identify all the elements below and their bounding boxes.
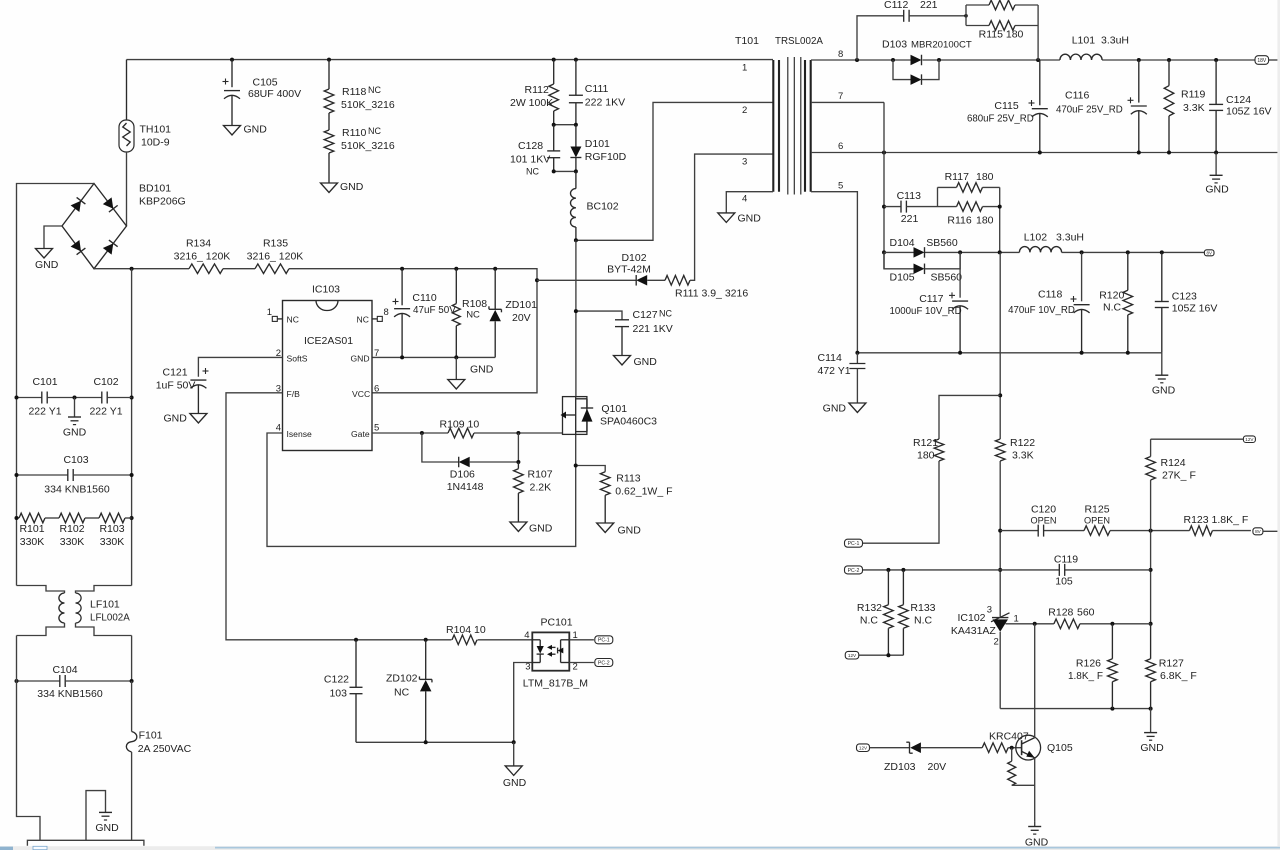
- wire: Isense loop (pin 4): [267, 433, 576, 546]
- pin 3 (T101): [742, 157, 747, 168]
- svg-text:C122: C122: [324, 674, 349, 686]
- ground (bridge negative): [35, 226, 62, 271]
- svg-text:10D-9: 10D-9: [141, 137, 170, 149]
- svg-text:3.3K: 3.3K: [1012, 450, 1034, 462]
- svg-text:NC: NC: [394, 687, 410, 699]
- pin 3 (IC102): [987, 605, 992, 616]
- svg-text:3: 3: [525, 662, 530, 673]
- svg-text:NC: NC: [287, 314, 299, 324]
- ground (T101 pin4): [718, 213, 761, 225]
- pin 2 (IC102): [994, 637, 999, 648]
- node 12V (R132 return): [845, 651, 903, 659]
- svg-text:R103: R103: [99, 523, 124, 535]
- resistor R102: [45, 513, 85, 548]
- wire: PC101 pin2 to PC-2: [569, 662, 594, 664]
- svg-text:2: 2: [994, 637, 999, 648]
- svg-text:2A 250VAC: 2A 250VAC: [138, 743, 192, 755]
- pin 1 (IC103): [267, 307, 283, 321]
- svg-text:ICE2AS01: ICE2AS01: [304, 335, 353, 347]
- svg-text:GND: GND: [1140, 742, 1164, 754]
- svg-text:C116: C116: [1065, 90, 1089, 102]
- svg-text:3216_ 120K: 3216_ 120K: [247, 251, 304, 263]
- node 18V output: [1255, 56, 1280, 65]
- ground (IC pin 7): [448, 357, 494, 389]
- svg-text:R132: R132: [857, 602, 882, 614]
- resistor R116 (bottom of pair): [938, 202, 1002, 253]
- pin 8 (IC103): [372, 307, 389, 321]
- wire: AC line 1 (left EMI leg): [17, 184, 95, 586]
- capacitor C103: [15, 454, 134, 496]
- fuse F101: [126, 681, 191, 840]
- svg-text:R112: R112: [525, 84, 549, 96]
- node 12V (R124 feed): [1151, 436, 1256, 443]
- svg-text:221 1KV: 221 1KV: [633, 323, 673, 335]
- line filter LF101: [17, 586, 132, 636]
- svg-text:GND: GND: [503, 777, 527, 789]
- resistor R109: [440, 419, 480, 438]
- svg-text:8: 8: [384, 307, 389, 318]
- svg-text:180: 180: [976, 215, 994, 227]
- svg-text:680uF 25V_RD: 680uF 25V_RD: [967, 114, 1034, 125]
- wire: 8V rectifier line: [884, 250, 1205, 254]
- svg-text:R120: R120: [1099, 290, 1124, 302]
- svg-text:D104: D104: [890, 237, 915, 249]
- zener diode ZD101: [489, 269, 537, 358]
- capacitor C105: [223, 60, 302, 126]
- ground (opto): [503, 742, 527, 789]
- svg-text:3: 3: [987, 605, 992, 616]
- svg-text:Q105: Q105: [1047, 742, 1073, 754]
- svg-text:LTM_817B_M: LTM_817B_M: [523, 678, 588, 690]
- svg-text:R117: R117: [945, 171, 969, 183]
- svg-text:4: 4: [524, 630, 529, 641]
- svg-text:OPEN: OPEN: [1084, 516, 1110, 526]
- wire: IC102 anode rail: [1000, 707, 1152, 711]
- svg-text:1N4148: 1N4148: [447, 481, 484, 493]
- svg-text:2: 2: [742, 105, 747, 116]
- wire: PC-2 / C119 line: [862, 568, 1150, 572]
- svg-text:D105: D105: [890, 272, 915, 284]
- svg-text:330K: 330K: [20, 536, 45, 548]
- svg-text:N.C: N.C: [1103, 302, 1122, 314]
- svg-text:222 Y1: 222 Y1: [89, 406, 122, 418]
- node PC-2 (tag): [845, 566, 863, 574]
- node 8V output: [1253, 528, 1280, 535]
- svg-text:D106: D106: [450, 469, 475, 481]
- wire: opto LED feed: [354, 638, 532, 642]
- svg-text:R135: R135: [263, 238, 288, 250]
- resistor R121: [862, 395, 1000, 543]
- capacitor C110: [393, 269, 457, 358]
- svg-text:IC103: IC103: [312, 284, 340, 296]
- wire: right EMI leg: [131, 269, 133, 681]
- resistor R132: [857, 570, 893, 655]
- svg-text:TH101: TH101: [140, 124, 172, 136]
- svg-text:3216_ 120K: 3216_ 120K: [174, 251, 231, 263]
- svg-text:C127: C127: [633, 309, 658, 321]
- svg-text:BC102: BC102: [587, 201, 619, 213]
- svg-text:R125: R125: [1084, 504, 1109, 516]
- svg-text:5: 5: [838, 181, 843, 192]
- resistor R113: [574, 464, 673, 524]
- svg-text:C104: C104: [52, 664, 77, 676]
- svg-text:C120: C120: [1031, 504, 1056, 516]
- svg-text:MBR20100CT: MBR20100CT: [911, 40, 972, 51]
- svg-text:C105: C105: [253, 77, 278, 89]
- thermistor TH101: [119, 60, 171, 152]
- wire: opto cathode return: [356, 663, 532, 745]
- inductor L102: [1019, 232, 1084, 253]
- svg-text:NC: NC: [659, 309, 672, 319]
- svg-text:R124: R124: [1161, 457, 1186, 469]
- ground (C105): [224, 124, 268, 136]
- pin 6 (IC103): [374, 384, 379, 395]
- svg-text:R133: R133: [910, 602, 935, 614]
- svg-text:PC-1: PC-1: [598, 638, 610, 644]
- diode D103 (dual): [882, 39, 972, 85]
- resistor R117 (top of pair): [938, 171, 1000, 207]
- svg-text:GND: GND: [470, 364, 494, 376]
- svg-text:8: 8: [838, 49, 843, 60]
- svg-text:BD101: BD101: [139, 183, 171, 195]
- svg-text:R102: R102: [59, 523, 84, 535]
- svg-text:IC102: IC102: [958, 612, 986, 624]
- ground (R127): [1140, 709, 1164, 754]
- svg-text:C115: C115: [994, 100, 1018, 112]
- svg-text:GND: GND: [244, 124, 268, 136]
- node 12V (ZD103 feed): [857, 744, 910, 752]
- svg-text:3: 3: [742, 157, 747, 168]
- resistor R101: [15, 513, 134, 548]
- svg-text:OPEN: OPEN: [1030, 516, 1056, 526]
- svg-text:222 Y1: 222 Y1: [28, 406, 61, 418]
- svg-text:6: 6: [374, 384, 379, 395]
- svg-text:SB560: SB560: [926, 237, 958, 249]
- optocoupler PC101: [523, 617, 588, 690]
- svg-text:330K: 330K: [60, 536, 85, 548]
- svg-text:1000uF 10V_RD: 1000uF 10V_RD: [890, 306, 962, 317]
- svg-text:Isense: Isense: [287, 429, 313, 439]
- pin 6 (T101): [838, 141, 843, 152]
- svg-text:12V: 12V: [1245, 437, 1254, 442]
- pin 2 (PC101): [573, 662, 578, 673]
- svg-text:1.8K_ F: 1.8K_ F: [1068, 671, 1103, 682]
- diode D102: [537, 252, 665, 286]
- svg-text:C101: C101: [32, 376, 57, 388]
- ground (Q105): [1025, 821, 1049, 848]
- pin 5 (T101): [811, 181, 857, 353]
- svg-text:20V: 20V: [512, 312, 531, 324]
- node PC-1 (opto out 1): [595, 636, 613, 644]
- svg-text:SPA0460C3: SPA0460C3: [600, 416, 657, 428]
- ground (R110): [321, 181, 364, 193]
- capacitor C114: [818, 352, 866, 403]
- pin 3 (IC103): [276, 384, 281, 395]
- svg-text:27K_ F: 27K_ F: [1162, 470, 1196, 482]
- ground (C121): [163, 413, 206, 425]
- wire: F/B line (pin 3): [226, 393, 356, 640]
- svg-text:47uF 50V: 47uF 50V: [413, 305, 456, 316]
- pin 4 (IC103): [276, 423, 281, 434]
- svg-text:221: 221: [901, 213, 919, 225]
- capacitor C118: [1008, 252, 1090, 352]
- inductor BC102: [571, 171, 619, 240]
- svg-text:PC101: PC101: [541, 617, 573, 629]
- svg-text:C112: C112: [884, 0, 908, 11]
- svg-text:R110: R110: [342, 127, 366, 139]
- resistor KRC407 (base): [982, 731, 1029, 753]
- resistor R127: [1146, 624, 1197, 709]
- zener diode ZD103: [884, 742, 982, 773]
- svg-text:4: 4: [276, 423, 281, 434]
- pin 1 (IC102): [1014, 614, 1019, 625]
- svg-text:2.2K: 2.2K: [530, 482, 552, 494]
- svg-text:NC: NC: [368, 126, 381, 136]
- svg-text:1: 1: [742, 63, 747, 74]
- resistor R128: [1048, 607, 1094, 629]
- svg-text:1: 1: [267, 307, 272, 318]
- wire: DC+ top rail: [127, 58, 774, 62]
- svg-text:0.62_1W_ F: 0.62_1W_ F: [615, 486, 672, 498]
- node PC-1 (tag): [845, 539, 863, 547]
- svg-text:N.C: N.C: [860, 615, 879, 627]
- svg-text:GND: GND: [823, 403, 847, 415]
- svg-text:SoftS: SoftS: [287, 354, 308, 364]
- resistor R125: [1084, 504, 1110, 536]
- svg-text:R116: R116: [947, 215, 971, 227]
- svg-text:R109 10: R109 10: [440, 419, 480, 431]
- wire: PC101 pin1 to PC-1: [569, 639, 594, 641]
- svg-text:GND: GND: [351, 354, 370, 364]
- capacitor C122: [324, 640, 363, 743]
- svg-text:3.3uH: 3.3uH: [1101, 35, 1129, 47]
- svg-text:D101: D101: [585, 138, 610, 150]
- pin 2 (IC103): [276, 348, 281, 359]
- resistor R120: [1099, 252, 1132, 352]
- wire: gate line (pin 5): [372, 431, 563, 435]
- svg-text:GND: GND: [634, 356, 658, 368]
- ground (chassis at plug): [86, 791, 119, 841]
- pin 1 (T101): [742, 63, 747, 74]
- svg-text:221: 221: [920, 0, 938, 11]
- svg-text:R121: R121: [913, 437, 938, 449]
- wire: secondary ground rail: [855, 351, 1161, 355]
- svg-text:R111 3.9_ 3216: R111 3.9_ 3216: [675, 288, 748, 300]
- pin 5 (IC103): [374, 423, 379, 434]
- svg-text:103: 103: [329, 688, 347, 700]
- svg-text:4: 4: [742, 194, 747, 205]
- ground (R107): [510, 522, 553, 535]
- svg-text:334 KNB1560: 334 KNB1560: [37, 688, 103, 700]
- capacitor C127: [574, 309, 673, 356]
- svg-text:Q101: Q101: [601, 403, 627, 415]
- pin 1 (PC101): [573, 630, 578, 641]
- svg-text:PC-2: PC-2: [598, 660, 610, 666]
- svg-text:C103: C103: [63, 454, 88, 466]
- capacitor C117: [890, 252, 969, 352]
- pin 3 (PC101): [525, 662, 530, 673]
- svg-text:R108: R108: [462, 298, 487, 310]
- svg-text:C124: C124: [1226, 94, 1251, 106]
- svg-text:2W 100K: 2W 100K: [510, 97, 553, 109]
- svg-text:222 1KV: 222 1KV: [585, 97, 625, 109]
- svg-text:L101: L101: [1072, 35, 1096, 47]
- svg-text:F/B: F/B: [287, 389, 301, 399]
- svg-text:TRSL002A: TRSL002A: [775, 36, 823, 47]
- diode D105: [884, 252, 962, 283]
- svg-text:8V: 8V: [1207, 250, 1212, 255]
- svg-text:NC: NC: [368, 85, 381, 95]
- capacitor C120: [1030, 504, 1056, 537]
- svg-text:D103: D103: [882, 39, 907, 51]
- svg-text:5: 5: [374, 423, 379, 434]
- ground (sec rail): [1152, 353, 1176, 397]
- svg-text:560: 560: [1077, 607, 1095, 619]
- svg-text:LFL002A: LFL002A: [90, 613, 130, 624]
- svg-text:R122: R122: [1010, 437, 1035, 449]
- wire: secondary common (pin 6): [811, 151, 1280, 155]
- svg-text:12V: 12V: [859, 745, 868, 750]
- svg-text:R123 1.8K_ F: R123 1.8K_ F: [1184, 514, 1249, 526]
- svg-text:SB560: SB560: [931, 272, 963, 284]
- resistor R103: [85, 513, 132, 548]
- svg-text:1: 1: [1014, 614, 1019, 625]
- svg-text:GND: GND: [1152, 385, 1176, 397]
- resistor R104: [446, 624, 486, 645]
- wire: TH101 to bridge: [126, 152, 128, 226]
- pin 7 (IC103): [374, 348, 379, 359]
- capacitor C101: [15, 376, 134, 418]
- svg-text:C117: C117: [919, 293, 943, 305]
- svg-text:C114: C114: [818, 352, 842, 364]
- resistor R107: [514, 462, 553, 522]
- capacitor C121: [156, 357, 283, 413]
- resistor R112: [510, 60, 559, 125]
- svg-text:C118: C118: [1038, 289, 1062, 301]
- resistor R126: [1068, 624, 1117, 709]
- capacitor C115: [967, 60, 1048, 153]
- svg-text:GND: GND: [95, 822, 119, 834]
- wire: 18V output rail: [811, 58, 1255, 62]
- capacitor C123: [1155, 252, 1218, 352]
- svg-text:C121: C121: [163, 367, 188, 379]
- svg-text:GND: GND: [35, 259, 59, 271]
- svg-text:NC: NC: [357, 314, 369, 324]
- svg-text:BYT-42M: BYT-42M: [607, 264, 651, 276]
- svg-text:6.8K_ F: 6.8K_ F: [1160, 670, 1197, 682]
- svg-text:3.3K: 3.3K: [1183, 102, 1205, 114]
- svg-text:GND: GND: [63, 427, 87, 439]
- svg-text:472 Y1: 472 Y1: [818, 365, 851, 377]
- svg-text:GND: GND: [163, 413, 187, 425]
- svg-text:C119: C119: [1054, 554, 1078, 566]
- svg-text:ZD101: ZD101: [505, 299, 537, 311]
- svg-text:D102: D102: [621, 252, 646, 264]
- svg-text:R104 10: R104 10: [446, 624, 486, 636]
- resistor R108: [452, 269, 487, 358]
- svg-text:NC: NC: [526, 167, 539, 177]
- svg-text:GND: GND: [738, 213, 762, 225]
- ground (C114): [823, 403, 866, 415]
- svg-text:R128: R128: [1048, 607, 1073, 619]
- svg-text:334 KNB1560: 334 KNB1560: [44, 484, 110, 496]
- svg-text:510K_3216: 510K_3216: [341, 99, 395, 111]
- diode D104: [890, 237, 958, 258]
- svg-text:NC: NC: [466, 310, 480, 321]
- svg-text:T101: T101: [735, 35, 759, 47]
- svg-text:7: 7: [374, 348, 379, 359]
- capacitor C119: [1054, 554, 1078, 588]
- pin 4 (PC101): [524, 630, 529, 641]
- capacitor C124: [1209, 60, 1271, 153]
- wire: drain line: [575, 240, 577, 396]
- capacitor C116: [1056, 60, 1147, 153]
- svg-text:470uF 10V_RD: 470uF 10V_RD: [1008, 305, 1075, 316]
- shunt regulator IC102 KA431AZ: [951, 612, 1010, 709]
- svg-text:18V: 18V: [1257, 58, 1267, 64]
- MOSFET Q101: [561, 397, 658, 435]
- pin 4 (T101): [726, 192, 773, 213]
- svg-text:68UF 400V: 68UF 400V: [248, 88, 301, 100]
- resistor R115 (pair): [966, 0, 1038, 60]
- wire: comp line: [1000, 529, 1251, 533]
- resistor R135: [247, 238, 304, 274]
- svg-text:GND: GND: [340, 181, 364, 193]
- capacitor C113: [884, 190, 938, 225]
- svg-text:180: 180: [976, 171, 994, 183]
- diode D106: [422, 433, 521, 493]
- svg-text:6: 6: [838, 141, 843, 152]
- svg-text:20V: 20V: [928, 761, 947, 773]
- svg-text:Gate: Gate: [351, 429, 370, 439]
- resistor R133: [899, 570, 936, 655]
- resistor R124: [1146, 439, 1196, 626]
- svg-text:C110: C110: [412, 292, 436, 304]
- svg-text:330K: 330K: [100, 536, 125, 548]
- svg-text:KA431AZ: KA431AZ: [951, 625, 997, 637]
- resistor R134: [174, 238, 231, 274]
- svg-text:C111: C111: [585, 83, 609, 95]
- capacitor C128: [510, 125, 560, 177]
- transistor Q105: [1016, 624, 1073, 822]
- resistor (Q105 internal): [1008, 748, 1035, 786]
- wire: C128/D101 junction: [552, 169, 578, 173]
- wire: pin7 branch: [882, 102, 886, 268]
- diode D101: [570, 125, 626, 172]
- ground (R113): [597, 523, 642, 537]
- inductor L101: [1060, 35, 1129, 61]
- svg-text:180: 180: [917, 450, 935, 462]
- svg-text:8V: 8V: [1255, 529, 1262, 534]
- resistor R118: [324, 60, 395, 113]
- wire: IC GND line (pin 7): [372, 355, 495, 359]
- capacitor C102: [89, 376, 131, 418]
- resistor R123: [1184, 514, 1249, 535]
- svg-text:3.3uH: 3.3uH: [1056, 232, 1084, 244]
- svg-text:R134: R134: [186, 238, 211, 250]
- resistor R119: [1164, 60, 1205, 153]
- svg-text:R126: R126: [1076, 658, 1101, 670]
- svg-text:R113: R113: [616, 473, 640, 485]
- bridge rectifier BD101: [62, 183, 186, 269]
- ground (C101/C102 mid): [63, 396, 87, 439]
- svg-text:7: 7: [838, 91, 843, 102]
- svg-text:GND: GND: [1205, 184, 1229, 196]
- svg-text:RGF10D: RGF10D: [585, 151, 627, 163]
- wire: left leg to plug: [17, 636, 41, 841]
- svg-text:R115 180: R115 180: [979, 29, 1024, 41]
- svg-text:ZD102: ZD102: [386, 673, 418, 685]
